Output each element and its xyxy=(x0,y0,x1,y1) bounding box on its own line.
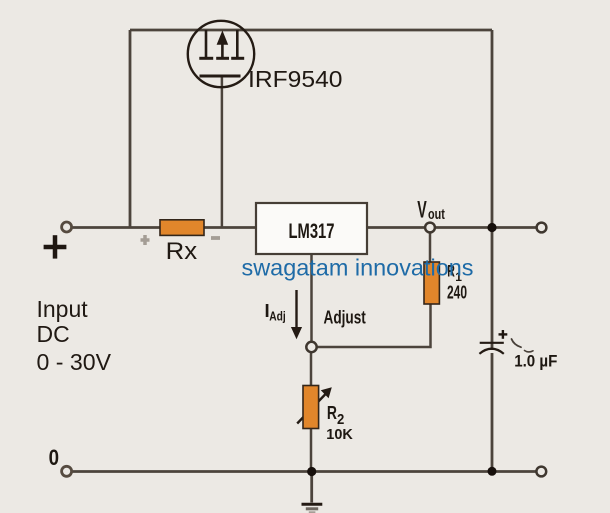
svg-text:DC: DC xyxy=(37,321,70,347)
wire adjust node to R1 bottom xyxy=(317,304,431,348)
terminal input + (open circle) xyxy=(62,222,72,232)
ground symbol xyxy=(302,504,323,512)
Q1 right leg (drain contact) xyxy=(231,30,244,58)
wire LM317 adjust pin xyxy=(310,254,313,342)
svg-text:Input: Input xyxy=(37,296,89,322)
wire bottom rail xyxy=(72,470,537,473)
wire output row xyxy=(367,226,537,229)
terminal output (open circle) xyxy=(537,223,547,233)
watermark swirl stroke xyxy=(512,339,522,347)
wire input row xyxy=(72,226,256,229)
svg-text:IRF9540: IRF9540 xyxy=(248,66,343,92)
wire ground stem xyxy=(310,472,313,503)
transistor Q1 IRF9540 body circle xyxy=(188,21,254,87)
junction dot cap/bottom rail xyxy=(488,467,497,476)
wire right vertical drop xyxy=(491,30,494,228)
arrow IAdj current direction xyxy=(292,290,302,338)
resistor R1 xyxy=(424,262,439,304)
svg-text:LM317: LM317 xyxy=(289,220,335,243)
svg-text:out: out xyxy=(428,206,445,223)
svg-text:0: 0 xyxy=(49,445,59,470)
wire Vout to R1 top xyxy=(429,233,432,263)
arrow R2 wiper (line under body) xyxy=(297,392,327,424)
svg-text:10K: 10K xyxy=(326,426,353,443)
capacitor C1 curved plate xyxy=(479,349,503,354)
svg-text:Rx: Rx xyxy=(166,238,198,265)
wire capacitor top feed xyxy=(491,228,494,351)
capacitor polarity + xyxy=(499,330,508,339)
Q1 left leg (source contact) xyxy=(199,30,213,58)
polarity mark + (grey) xyxy=(141,235,150,245)
wire left vertical drop xyxy=(129,30,132,228)
resistor R2 (preset) xyxy=(303,386,319,429)
plus symbol input xyxy=(44,235,67,258)
capacitor C1 top plate xyxy=(480,342,504,344)
node Vout (open circle) xyxy=(425,223,435,233)
Q1 gate bar xyxy=(200,75,241,78)
svg-text:V: V xyxy=(417,196,427,223)
regulator U1 LM317 box xyxy=(256,203,367,254)
Q1 middle leg substrate arrow xyxy=(216,32,229,59)
watermark swirl breve xyxy=(525,351,534,352)
arrow R2 wiper head xyxy=(321,387,332,398)
junction dot R2/ground xyxy=(307,467,316,476)
polarity mark - (grey) xyxy=(211,236,220,240)
svg-text:1.0 µF: 1.0 µF xyxy=(514,351,557,370)
wire top rail xyxy=(130,29,492,32)
resistor Rx xyxy=(160,220,204,236)
node adjust (open circle) xyxy=(306,342,316,352)
wire capacitor bottom feed xyxy=(491,353,494,472)
svg-text:240: 240 xyxy=(447,282,467,303)
wire MOSFET gate drop xyxy=(221,77,224,227)
svg-text:swagatam innovations: swagatam innovations xyxy=(242,255,474,281)
wire adjust node to R2 top xyxy=(310,353,313,387)
junction dot output/cap xyxy=(487,223,496,232)
terminal 0V left (open circle) xyxy=(62,466,72,476)
svg-text:R: R xyxy=(327,402,337,423)
wire R2 bottom to ground rail xyxy=(310,428,313,472)
terminal 0V right (open circle) xyxy=(536,467,546,477)
svg-text:Adjust: Adjust xyxy=(324,308,366,328)
svg-text:0 - 30V: 0 - 30V xyxy=(37,349,112,375)
svg-text:Adj: Adj xyxy=(269,310,286,324)
